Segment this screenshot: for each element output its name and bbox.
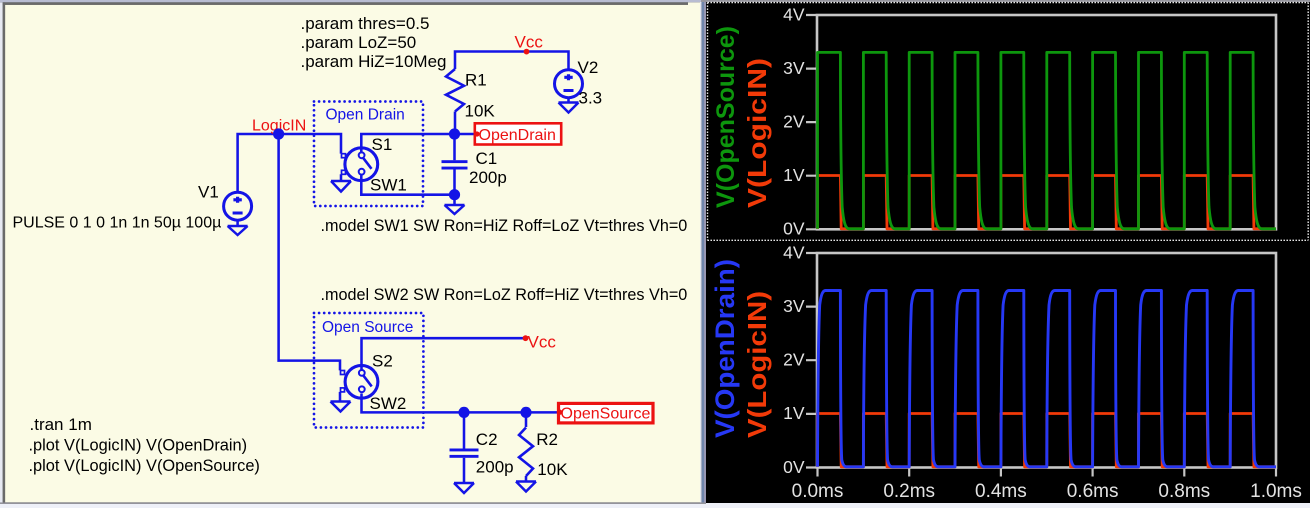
wire C2 bottom stub [463,458,466,483]
svg-text:.tran 1m: .tran 1m [30,415,92,434]
capacitor C1 [442,160,468,163]
wire C1 top stub [453,134,456,160]
ground below S2 control [331,402,351,412]
svg-text:4V: 4V [783,4,805,24]
node dot Vcc (lower) [523,335,529,341]
svg-text:Vcc: Vcc [515,33,544,52]
resistor R2 [519,428,533,477]
svg-text:4V: 4V [783,242,805,262]
svg-text:10K: 10K [465,102,496,121]
svg-text:.model SW1 SW Ron=HiZ Roff=LoZ: .model SW1 SW Ron=HiZ Roff=LoZ Vt=thres … [321,217,688,235]
capacitor C2 [450,449,479,452]
svg-text:Open Source: Open Source [322,319,413,336]
svg-text:C1: C1 [476,149,498,168]
svg-text:0.8ms: 0.8ms [1158,481,1210,502]
pane dotted selection borders [708,3,1309,241]
svg-text:1V: 1V [783,165,805,185]
svg-text:Vcc: Vcc [528,333,557,352]
svg-text:3.3: 3.3 [579,89,603,108]
bottom strip [0,502,706,504]
svg-text:R1: R1 [465,71,487,90]
dotted box Open Source [314,313,423,428]
switch S2 control + pin [341,371,345,375]
port box OpenDrain [475,123,561,144]
svg-text:V(LogicIN): V(LogicIN) [742,58,772,208]
svg-text:V(OpenSource): V(OpenSource) [712,26,740,208]
svg-text:3V: 3V [783,296,805,316]
wire LogicIN vertical run to Open Source + control drop [279,134,340,370]
ground below V2 [559,103,579,113]
svg-text:SW2: SW2 [370,394,407,413]
wire V2 bottom stub [567,98,570,103]
junction R2 node [520,407,531,418]
svg-text:1V: 1V [783,403,805,423]
svg-text:200p: 200p [469,168,507,187]
switch S1 [345,148,378,181]
svg-text:0.6ms: 0.6ms [1067,481,1119,502]
voltage source V1 [224,192,252,220]
resistor R1 [446,69,464,112]
trace V(LogicIN) pane1 [818,176,1277,229]
ground below R2 [516,482,536,492]
svg-text:.param LoZ=50: .param LoZ=50 [301,33,417,52]
svg-text:0V: 0V [783,219,805,239]
svg-text:.plot V(LogicIN) V(OpenSource): .plot V(LogicIN) V(OpenSource) [29,457,260,475]
pin dot OpenSource [557,409,563,415]
svg-text:V(LogicIN): V(LogicIN) [742,291,772,438]
wire R1 bottom [454,112,457,135]
switch S1 control + pin [342,154,346,158]
right window black background [706,2,1310,503]
wire R2 top stub [525,412,528,427]
svg-text:R2: R2 [536,430,558,449]
svg-text:PULSE 0 1 0 1n 1n 50µ 100µ: PULSE 0 1 0 1n 1n 50µ 100µ [13,215,222,232]
svg-text:1.0ms: 1.0ms [1250,481,1302,502]
svg-text:.model SW2 SW Ron=LoZ Roff=HiZ: .model SW2 SW Ron=LoZ Roff=HiZ Vt=thres … [321,286,688,304]
node dot Vcc [524,49,530,55]
wire V1 bottom stub [236,220,239,226]
pane2 axis frame [817,253,1276,468]
ground below C1 [445,205,465,214]
svg-text:200p: 200p [476,458,514,477]
svg-text:0.0ms: 0.0ms [792,481,844,502]
voltage source V2 [555,70,583,98]
svg-text:V2: V2 [578,58,599,77]
svg-text:SW1: SW1 [370,176,407,195]
svg-text:2V: 2V [783,111,805,131]
schematic canvas (cream) [5,5,700,503]
divider between windows [700,2,702,503]
wire R2 bottom stub [525,476,528,482]
svg-text:3V: 3V [783,58,805,78]
svg-text:OpenSource: OpenSource [561,406,651,423]
svg-text:10K: 10K [537,460,568,479]
wire S1 minus to ground [340,174,343,181]
wire S2 minus to ground [339,392,342,402]
wire S1 bottom pin and bottom run [361,175,454,195]
trace V(OpenSource) [818,52,1277,228]
junction bottom node [449,189,460,200]
ground below S1 control [331,181,351,192]
svg-text:S1: S1 [372,135,393,154]
window chrome: top bar [0,0,701,2]
pane2 y ticks [806,253,816,468]
wire V1 top + LogicIN run + S1 control drop [238,134,341,192]
dotted box Open Drain [314,102,423,207]
port box OpenSource [559,403,654,423]
pane1 axis frame [817,15,1276,229]
trace V(LogicIN) pane2 [818,414,1277,467]
wire S2 top pin and Vcc run [362,338,526,371]
trace V(OpenDrain) [818,291,1277,467]
svg-text:0.4ms: 0.4ms [975,481,1027,502]
pane1 y ticks [806,15,816,229]
pin dot OpenDrain [474,131,479,136]
wire Vcc rail with R1 top stub and V2 top stub [455,52,569,71]
junction OpenDrain node [449,128,460,139]
switch S2 [345,365,378,398]
left window left border [0,2,3,508]
switch S1 control - pin [342,170,346,174]
svg-text:.plot V(LogicIN) V(OpenDrain): .plot V(LogicIN) V(OpenDrain) [29,437,248,455]
svg-text:.param HiZ=10Meg: .param HiZ=10Meg [301,52,447,71]
svg-text:2V: 2V [783,350,805,370]
wire C2 top stub [463,412,466,448]
switch S2 control - pin [341,388,345,392]
svg-text:0V: 0V [783,457,805,477]
svg-text:S2: S2 [372,352,393,371]
ground below V1 [228,226,248,235]
wire S2 bottom pin and OpenSource run [362,394,558,413]
wire S1 top pin to output node [361,134,476,153]
pane2 x ticks [818,468,1277,477]
junction LogicIN [273,128,284,139]
wire to ground under C1 [453,195,456,205]
svg-text:Open Drain: Open Drain [326,107,405,124]
svg-text:OpenDrain: OpenDrain [479,127,556,144]
svg-text:V(OpenDrain): V(OpenDrain) [710,259,740,438]
ground below C2 [454,483,474,493]
wire C1 bottom stub [453,170,456,195]
junction C2 node [458,407,469,418]
svg-text:.param thres=0.5: .param thres=0.5 [301,14,430,33]
svg-text:V1: V1 [198,183,219,202]
svg-text:0.2ms: 0.2ms [883,481,935,502]
svg-text:C2: C2 [476,430,498,449]
